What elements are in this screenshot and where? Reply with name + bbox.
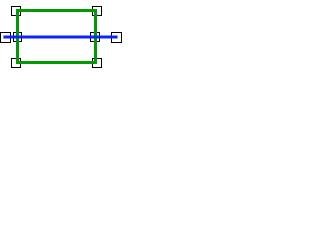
selection handle: bottom-left corner of body xyxy=(12,59,21,68)
selection handle: top-right corner of body xyxy=(93,7,102,16)
selection handle: left pin endpoint xyxy=(1,33,11,43)
selection handle: top-left corner of body xyxy=(12,7,21,16)
resistor R1 body (IEC rectangle outline) xyxy=(18,11,96,63)
selection handle: right pin endpoint xyxy=(112,33,122,43)
selection handle: right edge midpoint of body xyxy=(91,33,100,42)
selection handle: bottom-right corner of body xyxy=(93,59,102,68)
wire: horizontal pin lead through body xyxy=(5,35,116,38)
selection handle: left edge midpoint of body xyxy=(14,33,22,42)
